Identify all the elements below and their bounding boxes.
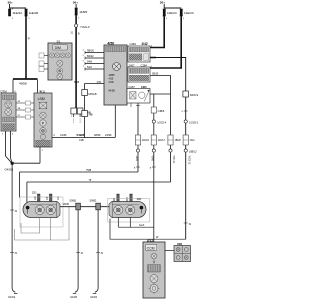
wire (long horizontal bus upper) — [20, 169, 139, 172]
pin labels DTM bottom — [2, 134, 14, 136]
svg-text:41/35: 41/35 — [60, 133, 67, 137]
lamp assembly left outline — [20, 197, 63, 227]
wire — [11, 131, 13, 163]
connector C4B/8 — [151, 107, 165, 113]
fuse 11E/26 — [24, 9, 38, 20]
svg-text:160: 160 — [137, 197, 142, 201]
wire — [84, 96, 86, 111]
splice MOLS — [183, 91, 198, 97]
fuse 11B/5 — [75, 8, 88, 20]
svg-text:30+: 30+ — [8, 1, 13, 5]
svg-text:1904: 1904 — [135, 156, 137, 162]
junction bar 49/58 — [13, 79, 38, 85]
wire tick — [136, 105, 140, 107]
relay 2/42 — [128, 42, 150, 62]
connector 24B — [71, 108, 91, 123]
connector 1B/20 — [168, 135, 182, 145]
wire (2/42 to splice MOLS, right run) — [150, 58, 186, 240]
control unit LSM — [34, 89, 52, 147]
svg-text:Y/GS-3: Y/GS-3 — [80, 25, 90, 29]
splice MOLB — [82, 90, 97, 96]
wire (drop to left lamp terminal) — [26, 182, 28, 204]
svg-text:24/36: 24/36 — [105, 133, 112, 137]
svg-text:MOLS: MOLS — [190, 93, 198, 97]
svg-text:C284: C284 — [130, 42, 137, 46]
svg-text:LSM: LSM — [38, 97, 45, 101]
fuse 11E/24 — [163, 9, 177, 20]
svg-text:SB/26: SB/26 — [87, 50, 94, 53]
wire stub (4/56 pin row 2) — [83, 55, 104, 59]
connector circle — [152, 149, 155, 152]
wire stub hatched (right lamp pin 2) — [126, 194, 132, 203]
connector stub DIM pin c — [39, 67, 48, 72]
terminal 31/34 — [8, 293, 17, 298]
svg-text:Y043: Y043 — [151, 156, 153, 162]
wire (LSM pin 2 to module 4/56) — [52, 105, 115, 142]
connector 1S/4 — [183, 135, 195, 145]
wire tick — [134, 167, 140, 169]
svg-text:1B/20: 1B/20 — [175, 139, 182, 142]
svg-text:75/B: 75/B — [86, 169, 91, 172]
wire (left lamp bulb 1 return loop) — [21, 218, 40, 234]
connector Y/GS-3 — [75, 24, 90, 29]
connector DTM (left relay box) — [1, 89, 17, 131]
wire — [71, 27, 81, 108]
wire — [164, 4, 181, 8]
connector circle — [169, 149, 172, 152]
wire (DTM bottom pins to splice) — [6, 131, 12, 163]
svg-text:4/3D: 4/3D — [109, 81, 114, 84]
svg-text:54B/8: 54B/8 — [77, 133, 85, 137]
svg-text:54/8: 54/8 — [87, 61, 92, 64]
svg-text:84/8: 84/8 — [74, 80, 80, 84]
connector 116/17 — [151, 135, 165, 145]
wire (right lamp bulbs to module 3/12) — [118, 218, 154, 228]
svg-text:41/30: 41/30 — [70, 295, 77, 299]
terminal 41/32 — [90, 293, 97, 298]
wire stub row 1 (DTM to LSM) — [16, 101, 34, 105]
node 30+ left — [8, 1, 13, 5]
wire (C267 right pin down long run) — [150, 93, 171, 95]
wire tick — [182, 111, 188, 113]
svg-text:R: R — [28, 37, 30, 41]
svg-text:1S/4: 1S/4 — [190, 139, 196, 142]
wire (ground run 31 left) — [12, 165, 15, 293]
svg-text:41/32: 41/32 — [90, 295, 97, 299]
wire stub (4/56 pin row 3) — [83, 61, 104, 65]
svg-text:11B/5: 11B/5 — [79, 10, 87, 14]
wire stub row 2 — [16, 108, 34, 112]
wire — [12, 80, 14, 94]
node 30+ right — [160, 1, 165, 5]
wire (lamp ground bus) — [60, 202, 109, 207]
relay 2457 — [128, 63, 150, 82]
wire — [75, 4, 77, 8]
svg-text:11E/23: 11E/23 — [184, 11, 194, 15]
svg-text:HB: HB — [89, 113, 93, 117]
svg-text:30+: 30+ — [73, 1, 78, 5]
svg-text:C4B: C4B — [79, 139, 84, 142]
wire (left lamp bulb 2 return loop) — [15, 218, 51, 241]
svg-text:1/GS2-4: 1/GS2-4 — [157, 121, 167, 124]
svg-text:521: 521 — [32, 191, 37, 195]
wire — [84, 117, 86, 138]
svg-text:50/B2: 50/B2 — [90, 199, 97, 203]
svg-text:GL/1: GL/1 — [139, 223, 145, 227]
svg-text:GR: GR — [57, 196, 60, 200]
connector stub DIM pin a — [39, 53, 48, 58]
wire stub row 3 — [16, 115, 34, 119]
wire (ground drop B1) — [75, 210, 84, 292]
wire (right-side loop) — [51, 207, 69, 240]
connector 116/16 — [135, 135, 149, 145]
wire (splice bar to LSM drop) — [12, 162, 40, 164]
wire — [39, 147, 41, 163]
svg-text:16/36: 16/36 — [63, 202, 70, 206]
svg-text:11E/22: 11E/22 — [12, 11, 22, 15]
svg-text:11E/24: 11E/24 — [167, 11, 177, 15]
connector circle 1/GS5-3 — [184, 120, 198, 125]
wire (3/12 right pin) — [165, 250, 174, 252]
lamp assembly right outline — [108, 199, 150, 223]
svg-text:54/2: 54/2 — [87, 66, 92, 69]
svg-text:49/58: 49/58 — [19, 81, 27, 85]
svg-text:16B/12: 16B/12 — [189, 150, 197, 153]
connector HB — [82, 111, 93, 117]
svg-text:116/16: 116/16 — [142, 139, 150, 142]
wire (C267 bottom pin down) — [137, 103, 139, 172]
wire — [10, 4, 27, 8]
svg-text:CCM: CCM — [147, 246, 155, 250]
svg-text:SB/36: SB/36 — [152, 74, 159, 76]
lamp cluster left 521 — [23, 191, 60, 218]
svg-text:MOLB: MOLB — [88, 92, 96, 96]
svg-text:161: 161 — [34, 195, 37, 200]
connector circle 1/GS2-4 — [152, 120, 167, 125]
wire — [37, 80, 39, 94]
wire (thick, 2457 to fuse 11E/23) — [150, 16, 181, 68]
svg-text:31/34: 31/34 — [8, 295, 15, 299]
instrument cluster DIM (3/1) — [48, 39, 72, 80]
wire (drop to left lamp, outer) — [19, 172, 21, 198]
svg-text:48/36: 48/36 — [94, 133, 101, 137]
svg-text:DIM: DIM — [55, 46, 61, 50]
wire stub hatched (right lamp pin 1) — [113, 194, 119, 203]
wire tick 31 — [184, 223, 192, 226]
svg-text:Y05-12: Y05-12 — [172, 156, 174, 164]
wire (relay 2457 pin to lower bus) — [150, 74, 171, 182]
lamp cluster right 160 — [109, 197, 146, 218]
svg-text:50/B1: 50/B1 — [70, 199, 77, 203]
svg-text:Y/GS-12: Y/GS-12 — [187, 156, 189, 166]
connector stub DIM pin b — [39, 61, 48, 66]
wire tick — [150, 167, 156, 169]
svg-text:11E/26: 11E/26 — [29, 11, 39, 15]
svg-text:116/17: 116/17 — [158, 139, 166, 142]
svg-text:C4B/8: C4B/8 — [158, 110, 165, 113]
wire (down to module 3/12) — [153, 94, 155, 242]
pin tick — [130, 103, 132, 107]
wire (main feed down) — [75, 15, 77, 24]
wire (right lamp left pin to MOLS run) — [110, 219, 186, 240]
fuse 11E/23 — [180, 9, 194, 20]
svg-text:2/42: 2/42 — [142, 42, 148, 46]
wire stub (4/56 pin row 4) — [83, 66, 104, 70]
fuse 11E/22 — [8, 8, 22, 20]
control module 3/12 — [143, 239, 165, 298]
svg-text:1/GS5-3: 1/GS5-3 — [189, 121, 199, 124]
wire (long horizontal bus lower) — [27, 179, 171, 182]
wire tick 31 — [10, 253, 18, 256]
svg-text:4M35: 4M35 — [109, 74, 116, 77]
svg-text:84/3B: 84/3B — [109, 90, 116, 93]
connector circle 16B/12 — [184, 149, 197, 154]
wire stub (4/56 pin row 1) — [83, 50, 104, 54]
wire tick — [10, 210, 18, 213]
node 30+ center — [73, 1, 78, 5]
svg-text:B4/22: B4/22 — [87, 55, 94, 58]
wire (thick, 2/42 to fuse 11E/24) — [150, 16, 164, 48]
wire (4/56 bottom pin 84/8) — [74, 80, 104, 90]
control module 4/56 — [104, 41, 127, 105]
splice G4/GN — [5, 162, 14, 172]
connector circle — [136, 149, 139, 152]
wire stub hatched (left lamp pin 1) — [34, 194, 40, 202]
connector X00 — [174, 242, 191, 262]
wire (ground drop B2) — [95, 210, 104, 292]
terminal 41/30 — [70, 293, 77, 298]
splice 50/B2 — [90, 199, 101, 210]
splice 50/B1 — [70, 199, 81, 210]
wire (feed down to junction 49/58) — [25, 16, 27, 79]
relay C267 / 14D — [127, 85, 150, 103]
wire stub hatched (left lamp pin 2) — [46, 194, 52, 202]
